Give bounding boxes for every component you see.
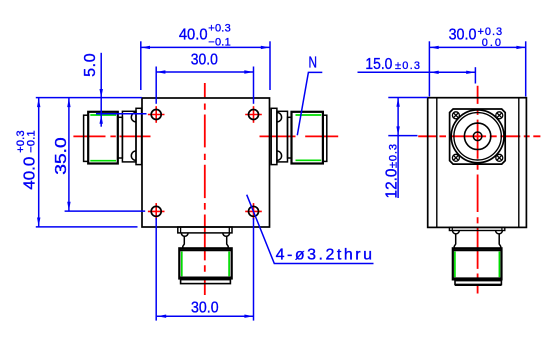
svg-text:±0.3: ±0.3: [388, 144, 400, 168]
svg-text:30.0: 30.0: [191, 52, 218, 69]
svg-text:N: N: [309, 55, 318, 72]
svg-text:5.0: 5.0: [82, 53, 99, 77]
svg-text:40.0: 40.0: [179, 27, 208, 44]
svg-text:−0.1: −0.1: [25, 130, 37, 152]
svg-text:35.0: 35.0: [53, 137, 70, 175]
svg-text:40.0: 40.0: [22, 157, 39, 190]
svg-text:15.0: 15.0: [365, 56, 392, 73]
svg-text:12.0: 12.0: [384, 168, 401, 198]
svg-text:−0.1: −0.1: [208, 36, 230, 48]
svg-text:30.0: 30.0: [191, 299, 219, 316]
svg-text:+0.3: +0.3: [208, 23, 230, 35]
svg-text:±0.3: ±0.3: [395, 60, 420, 72]
svg-text:0.0: 0.0: [482, 37, 501, 49]
svg-text:30.0: 30.0: [449, 27, 477, 44]
